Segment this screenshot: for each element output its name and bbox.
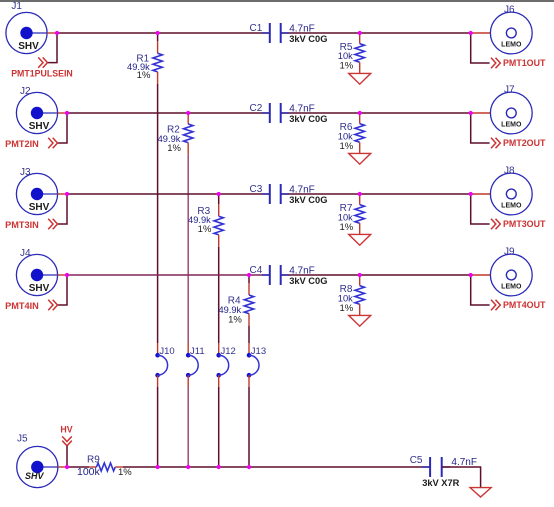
- jumper J13: [247, 353, 259, 378]
- wire: [281, 32, 471, 34]
- svg-text:PMT2IN: PMT2IN: [5, 139, 39, 149]
- pin (LEMO input): [471, 193, 491, 195]
- svg-text:1%: 1%: [339, 61, 353, 72]
- wire (HV port drop): [66, 446, 68, 467]
- svg-text:J13: J13: [251, 346, 266, 357]
- node (junction): [186, 111, 190, 115]
- capacitor pins: [262, 112, 270, 114]
- svg-text:SHV: SHV: [18, 41, 39, 52]
- svg-text:10k: 10k: [338, 212, 353, 222]
- port PMT1PULSEIN: [11, 57, 73, 78]
- svg-text:1%: 1%: [228, 315, 242, 326]
- svg-text:PMT4OUT: PMT4OUT: [503, 300, 546, 310]
- pin (SHV output): [58, 112, 67, 114]
- node (junction): [156, 31, 160, 35]
- pin: [187, 375, 189, 387]
- wire (column to jumper): [187, 155, 189, 343]
- svg-text:1%: 1%: [118, 467, 132, 478]
- wire (branch to input port): [58, 194, 67, 224]
- svg-text:3kV C0G: 3kV C0G: [289, 195, 327, 205]
- pin: [218, 375, 220, 387]
- svg-text:C2: C2: [250, 103, 263, 114]
- wire: [57, 32, 270, 34]
- port PMT4OUT: [491, 300, 546, 310]
- wire: [67, 112, 270, 114]
- svg-text:LEMO: LEMO: [501, 121, 522, 128]
- port PMT2OUT: [491, 138, 546, 148]
- node (junction): [217, 465, 221, 469]
- pin: [359, 33, 361, 44]
- node (junction): [186, 465, 190, 469]
- resistor R9: [97, 463, 116, 471]
- connector J3 (SHV coax): [16, 173, 57, 214]
- pin: [359, 304, 361, 315]
- wire (column to HV bus): [218, 387, 220, 467]
- wire: [281, 112, 471, 114]
- pin: [157, 375, 159, 387]
- wire (branch to output port): [471, 113, 490, 143]
- svg-text:LEMO: LEMO: [501, 41, 522, 48]
- svg-text:C5: C5: [410, 455, 423, 466]
- capacitor pins: [262, 274, 270, 276]
- capacitor C1: [270, 23, 281, 43]
- svg-text:10k: 10k: [338, 51, 353, 61]
- capacitor pins: [262, 32, 270, 34]
- pin: [248, 343, 250, 355]
- svg-text:J10: J10: [159, 346, 174, 357]
- connector J5 (SHV coax, HV input): [17, 446, 58, 487]
- svg-text:1%: 1%: [167, 143, 181, 154]
- node (junction): [469, 111, 473, 115]
- wire: [67, 466, 89, 468]
- connector J8 (LEMO coax): [490, 173, 532, 215]
- svg-text:SHV: SHV: [29, 202, 50, 213]
- pin (LEMO input): [471, 274, 491, 276]
- connector J7 (LEMO coax): [490, 92, 532, 134]
- svg-text:1%: 1%: [339, 303, 353, 314]
- capacitor pins: [262, 193, 270, 195]
- pin (SHV output): [47, 32, 57, 34]
- svg-text:3kV C0G: 3kV C0G: [289, 34, 327, 44]
- wire (column top): [157, 33, 159, 41]
- ground: [349, 73, 371, 84]
- wire (branch to input port): [58, 275, 67, 305]
- capacitor C4: [270, 265, 281, 285]
- resistor R1: [153, 53, 162, 72]
- wire (column top): [218, 194, 220, 204]
- resistor R3: [214, 216, 223, 235]
- wire (column top): [248, 275, 250, 283]
- pin: [359, 275, 361, 286]
- svg-text:4.7nF: 4.7nF: [289, 265, 315, 276]
- wire (column to jumper): [248, 326, 250, 343]
- node (junction): [358, 111, 362, 115]
- node (junction): [65, 111, 69, 115]
- svg-text:4.7nF: 4.7nF: [289, 23, 315, 34]
- port PMT3IN: [5, 219, 57, 230]
- pin (LEMO input): [471, 112, 491, 114]
- ground: [349, 315, 371, 326]
- pin: [359, 142, 361, 153]
- svg-text:4.7nF: 4.7nF: [289, 103, 315, 114]
- svg-text:J8: J8: [504, 166, 515, 177]
- pin: [89, 466, 97, 468]
- pin: [157, 72, 159, 84]
- pin: [187, 143, 189, 155]
- svg-text:LEMO: LEMO: [501, 202, 522, 209]
- svg-text:1%: 1%: [339, 141, 353, 152]
- resistor R7: [355, 205, 364, 224]
- wire: [281, 193, 471, 195]
- svg-text:PMT3IN: PMT3IN: [5, 220, 39, 230]
- port PMT4IN: [5, 300, 57, 311]
- pin: [248, 375, 250, 387]
- wire (to ground): [442, 467, 481, 488]
- node (junction): [247, 465, 251, 469]
- connector J2 (SHV coax): [16, 92, 57, 133]
- svg-text:J4: J4: [20, 248, 31, 259]
- wire (branch to input port): [58, 113, 67, 143]
- svg-text:SHV: SHV: [29, 283, 50, 294]
- svg-text:1%: 1%: [137, 70, 151, 81]
- pin: [187, 112, 189, 124]
- node (HV junction): [65, 465, 69, 469]
- svg-text:10k: 10k: [338, 131, 353, 141]
- node (junction): [65, 192, 69, 196]
- jumper J12: [216, 353, 228, 378]
- wire (column to HV bus): [157, 387, 159, 467]
- svg-text:100k: 100k: [77, 466, 101, 478]
- ground: [349, 153, 371, 164]
- svg-text:PMT3OUT: PMT3OUT: [503, 219, 546, 229]
- node (junction): [358, 31, 362, 35]
- svg-text:J6: J6: [504, 5, 515, 16]
- svg-text:1%: 1%: [198, 224, 212, 235]
- connector J9 (LEMO coax): [490, 254, 532, 296]
- wire (column to jumper): [157, 84, 159, 343]
- connector J6 (LEMO coax): [490, 12, 532, 54]
- node (junction): [358, 192, 362, 196]
- pin: [157, 343, 159, 355]
- wire (branch to output port): [471, 275, 490, 305]
- wire (column top): [187, 112, 189, 113]
- node (junction): [156, 465, 160, 469]
- svg-text:C4: C4: [250, 265, 263, 276]
- svg-text:HV: HV: [60, 424, 72, 434]
- pin: [248, 314, 250, 326]
- wire (HV bus): [123, 466, 430, 468]
- pin: [359, 113, 361, 124]
- connector J1 (SHV coax): [6, 12, 47, 53]
- resistor R4: [244, 295, 253, 314]
- pin: [157, 41, 159, 53]
- pin (SHV output): [58, 274, 67, 276]
- wire (column to HV bus): [187, 387, 189, 467]
- svg-text:SHV: SHV: [29, 121, 50, 132]
- node (junction): [469, 273, 473, 277]
- svg-text:PMT1PULSEIN: PMT1PULSEIN: [11, 69, 73, 79]
- capacitor C5 pins: [422, 466, 430, 468]
- node (junction): [358, 273, 362, 277]
- resistor R2: [184, 124, 193, 143]
- power port HV: [60, 424, 72, 445]
- capacitor C5: [430, 457, 442, 477]
- pin: [218, 343, 220, 355]
- svg-text:3kV X7R: 3kV X7R: [422, 478, 459, 488]
- svg-text:R9: R9: [87, 455, 100, 466]
- wire (column to jumper): [218, 247, 220, 343]
- capacitor C3: [270, 184, 281, 204]
- svg-text:J11: J11: [190, 346, 205, 357]
- wire (branch to input port): [48, 33, 57, 63]
- svg-text:3kV C0G: 3kV C0G: [289, 276, 327, 286]
- resistor R6: [355, 124, 364, 143]
- pin: [218, 235, 220, 247]
- wire: [281, 274, 471, 276]
- node (junction): [65, 273, 69, 277]
- pin: [218, 204, 220, 216]
- node (junction): [217, 192, 221, 196]
- port PMT2IN: [5, 138, 57, 149]
- pin (SHV output): [58, 193, 67, 195]
- pin (J5 to HV node): [58, 466, 67, 468]
- ground: [470, 488, 491, 497]
- node (junction): [469, 192, 473, 196]
- svg-text:J9: J9: [504, 247, 515, 258]
- svg-text:LEMO: LEMO: [501, 283, 522, 290]
- pin: [359, 223, 361, 234]
- svg-text:10k: 10k: [338, 293, 353, 303]
- pin: [248, 283, 250, 295]
- svg-text:4.7nF: 4.7nF: [289, 184, 315, 195]
- wire (column to HV bus): [248, 387, 250, 467]
- pin (LEMO input): [471, 32, 491, 34]
- wire: [67, 274, 270, 276]
- pin: [115, 466, 123, 468]
- jumper J11: [186, 353, 198, 378]
- pin: [359, 194, 361, 205]
- port PMT1OUT: [491, 58, 546, 68]
- ground: [349, 234, 371, 245]
- node (junction): [55, 31, 59, 35]
- svg-text:3kV C0G: 3kV C0G: [289, 114, 327, 124]
- svg-text:J1: J1: [11, 1, 22, 12]
- svg-text:PMT1OUT: PMT1OUT: [503, 58, 546, 68]
- svg-text:J12: J12: [221, 346, 236, 357]
- svg-text:SHV: SHV: [25, 471, 45, 481]
- resistor R8: [355, 286, 364, 305]
- node (junction): [469, 31, 473, 35]
- port PMT3OUT: [491, 219, 546, 229]
- svg-text:J7: J7: [504, 85, 515, 96]
- svg-text:PMT2OUT: PMT2OUT: [503, 138, 546, 148]
- svg-text:J3: J3: [20, 167, 31, 178]
- svg-text:C3: C3: [250, 184, 263, 195]
- wire: [67, 193, 270, 195]
- svg-text:PMT4IN: PMT4IN: [5, 301, 39, 311]
- capacitor C2: [270, 103, 281, 123]
- svg-text:1%: 1%: [339, 222, 353, 233]
- svg-text:J2: J2: [20, 86, 31, 97]
- jumper J10: [155, 353, 167, 378]
- pin: [187, 343, 189, 355]
- svg-text:C1: C1: [250, 23, 263, 34]
- resistor R5: [355, 44, 364, 63]
- connector J4 (SHV coax): [16, 254, 57, 295]
- svg-text:49.9k: 49.9k: [218, 305, 241, 315]
- pin: [359, 62, 361, 73]
- wire (branch to output port): [471, 33, 490, 63]
- node (junction): [247, 273, 251, 277]
- wire (branch to output port): [471, 194, 490, 224]
- svg-text:J5: J5: [17, 434, 28, 445]
